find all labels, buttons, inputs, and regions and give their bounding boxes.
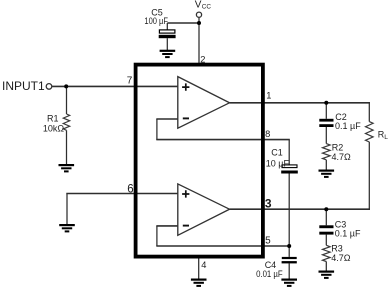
svg-text:R1: R1	[47, 113, 59, 123]
svg-text:4.7Ω: 4.7Ω	[331, 253, 351, 263]
svg-text:INPUT1: INPUT1	[2, 79, 45, 93]
svg-text:C1: C1	[271, 148, 283, 158]
svg-text:CC: CC	[202, 4, 212, 11]
svg-text:L: L	[384, 134, 388, 141]
svg-text:10 µF: 10 µF	[266, 159, 290, 169]
svg-text:10kΩ: 10kΩ	[43, 123, 65, 133]
svg-text:V: V	[195, 0, 202, 11]
svg-text:0.1 µF: 0.1 µF	[335, 121, 361, 131]
svg-text:4: 4	[201, 260, 206, 270]
svg-text:4.7Ω: 4.7Ω	[332, 152, 352, 162]
svg-text:3: 3	[265, 197, 272, 211]
svg-text:8: 8	[265, 129, 270, 139]
svg-text:2: 2	[200, 54, 205, 64]
svg-text:0.1 µF: 0.1 µF	[335, 228, 361, 238]
svg-text:0.01 µF: 0.01 µF	[256, 269, 283, 279]
svg-text:1: 1	[266, 90, 271, 100]
svg-text:5: 5	[265, 236, 271, 247]
svg-text:100 µF: 100 µF	[144, 16, 168, 26]
svg-text:6: 6	[127, 183, 133, 195]
svg-text:7: 7	[127, 76, 133, 87]
